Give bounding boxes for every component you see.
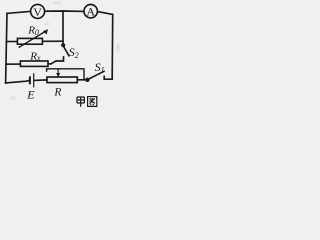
svg-text:A: A — [86, 5, 95, 19]
svg-text:E: E — [26, 88, 35, 102]
svg-text:R: R — [53, 87, 61, 99]
svg-text:V: V — [33, 5, 42, 19]
